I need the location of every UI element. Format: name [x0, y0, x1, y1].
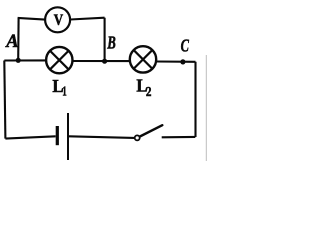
wire: voltmeter branch left vertical from A: [17, 18, 19, 60]
wire: top-right horizontal from voltmeter: [70, 18, 104, 20]
scan edge artifact right: [205, 55, 207, 161]
switch pivot circle: [135, 135, 140, 140]
wire: voltmeter branch right vertical to B: [104, 18, 106, 62]
switch lever: [140, 125, 162, 136]
svg-text:V: V: [54, 12, 64, 29]
svg-text:1: 1: [62, 85, 67, 100]
svg-text:C: C: [181, 36, 190, 56]
wire: left vertical: [4, 61, 5, 139]
svg-text:B: B: [106, 32, 115, 52]
svg-text:A: A: [5, 32, 18, 52]
wire: top-left horizontal to voltmeter: [18, 18, 45, 20]
lamp L2 circle: [130, 46, 156, 72]
lamp L2 cross: [134, 50, 152, 68]
wire: right vertical: [194, 62, 196, 137]
node A junction dot: [16, 58, 21, 63]
battery positive long plate: [67, 113, 69, 160]
wire: lamp row right segment: [157, 60, 196, 62]
wire: battery to switch: [69, 136, 134, 138]
voltmeter V circle: [45, 7, 70, 32]
wire: lamp row left segment: [4, 59, 45, 61]
wire: bottom left to battery: [5, 136, 55, 138]
battery negative short plate: [56, 126, 59, 145]
wire: switch contact to right corner: [162, 136, 196, 139]
lamp L1 cross: [50, 51, 68, 69]
node B junction dot: [102, 59, 107, 64]
lamp L1 circle: [46, 47, 72, 73]
svg-text:2: 2: [146, 85, 152, 100]
node C junction dot: [180, 59, 185, 64]
wire: lamp row middle segment: [73, 60, 129, 62]
